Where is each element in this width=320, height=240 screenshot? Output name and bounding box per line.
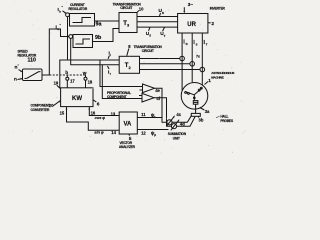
- svg-text:4f: 4f: [156, 96, 160, 101]
- tap wires to T2: [140, 58, 180, 60]
- svg-text:UNIT: UNIT: [173, 136, 180, 140]
- vector analyzer VA box 5: [119, 112, 137, 134]
- switch b circle pin 17: [66, 75, 68, 77]
- svg-text:10: 10: [139, 6, 144, 11]
- stator winding Y: [185, 92, 195, 95]
- wire psi_b: VA pin 12: [137, 129, 168, 131]
- op-amp 4f: [142, 93, 154, 102]
- wire 4c to hall probe 3a: [172, 116, 191, 123]
- inverter label: [210, 7, 226, 11]
- svg-text:6: 6: [97, 102, 100, 108]
- svg-text:R: R: [162, 11, 164, 15]
- current converter 7b: [190, 62, 195, 67]
- svg-text:R: R: [186, 42, 188, 46]
- svg-text:T: T: [206, 42, 208, 46]
- svg-text:S: S: [196, 42, 198, 46]
- wire I_f branch to amplifier 4f: [102, 65, 142, 99]
- transformation circuit label (mid): [134, 45, 163, 53]
- potentiometer 4c: [167, 120, 172, 125]
- label 19: [54, 80, 59, 85]
- input 20 arrow: [53, 101, 60, 106]
- svg-text:b: b: [65, 70, 68, 76]
- phase line R: [181, 33, 183, 90]
- wire 4f output to potentiometer 4d: [154, 98, 171, 127]
- label U_S: [146, 31, 152, 38]
- svg-text:9b: 9b: [95, 35, 102, 41]
- svg-text:MACHINE: MACHINE: [211, 75, 223, 79]
- input I_b* arrow: [63, 11, 67, 14]
- label 6: [93, 100, 96, 102]
- svg-text:17: 17: [70, 79, 75, 84]
- scan noise speckles: [7, 2, 245, 154]
- speed regulator box 110: [23, 69, 43, 81]
- current converter 7a: [180, 56, 185, 61]
- wire: T2 output I_f to node B: [71, 38, 120, 64]
- summation unit label: [168, 132, 187, 140]
- svg-text:3~: 3~: [188, 2, 194, 7]
- 3~ supply arrow: [183, 7, 185, 12]
- svg-text:14: 14: [111, 130, 116, 135]
- svg-text:CONVERTER: CONVERTER: [31, 108, 51, 112]
- wire cos phi: KW pin 16 to VA pin 13: [89, 107, 119, 116]
- svg-text:13: 13: [111, 111, 116, 116]
- op-amp 4e: [143, 84, 155, 93]
- svg-text:9a: 9a: [96, 22, 103, 28]
- svg-text:S: S: [149, 34, 151, 38]
- component converter KW box 6: [61, 88, 93, 107]
- potentiometer 4d: [171, 124, 176, 129]
- label 1: [205, 82, 209, 85]
- label I_f: [108, 70, 111, 77]
- svg-text:cos φ: cos φ: [95, 115, 106, 120]
- input n: [14, 78, 22, 83]
- wire 9b output to T3: [93, 29, 120, 42]
- svg-text:CIRCUIT: CIRCUIT: [120, 6, 132, 10]
- hall probes label: [220, 115, 234, 123]
- svg-text:3b: 3b: [199, 117, 204, 122]
- wire: speed reg output to I_w* summing branch: [42, 29, 69, 75]
- svg-text:7c: 7c: [196, 55, 200, 59]
- svg-text:4e: 4e: [155, 88, 160, 93]
- phase line S: [191, 33, 193, 82]
- inverter UR box 2: [178, 14, 208, 34]
- label 8: [127, 49, 129, 56]
- label I_w*: [56, 23, 62, 31]
- label U_T: [160, 31, 166, 38]
- svg-text:CIRCUIT: CIRCUIT: [142, 49, 154, 53]
- svg-text:f: f: [110, 72, 111, 76]
- current converter 7c: [200, 67, 205, 72]
- current regulator 9b box: [73, 35, 93, 48]
- svg-text:2: 2: [211, 21, 214, 27]
- transformation circuit T2 box: [119, 56, 139, 73]
- junction feedback to node A: [67, 17, 69, 60]
- svg-text:REGULATOR: REGULATOR: [68, 7, 87, 11]
- component converter label: [31, 104, 51, 112]
- current regulator 9a box: [70, 14, 95, 27]
- svg-text:11: 11: [141, 112, 146, 117]
- input n*: [15, 63, 23, 71]
- summing node B: [69, 35, 73, 39]
- svg-text:12: 12: [141, 130, 146, 135]
- labels I_R I_S I_T: [183, 39, 187, 46]
- svg-text:4c: 4c: [176, 112, 181, 117]
- svg-text:KW: KW: [72, 96, 82, 102]
- svg-text:w: w: [82, 71, 87, 76]
- label 5: [128, 134, 131, 135]
- svg-text:18: 18: [88, 80, 93, 85]
- summing node A: [66, 13, 70, 17]
- wires T3 to inverter U_R U_S U_T: [137, 16, 178, 18]
- speed regulator 110 label: [18, 49, 37, 63]
- wire: T2 output I_i to feedback: [60, 60, 119, 88]
- current regulator label: [68, 3, 87, 11]
- svg-text:INVERTER: INVERTER: [210, 7, 226, 11]
- svg-text:ANALYZER: ANALYZER: [119, 145, 136, 149]
- svg-text:3a: 3a: [205, 109, 210, 114]
- speed regulator ramp curve: [25, 72, 41, 79]
- wire I_i branch to amplifier 4e: [100, 60, 142, 87]
- label 10: [137, 11, 139, 13]
- svg-text:110: 110: [28, 58, 36, 64]
- proportional component label: [107, 91, 131, 99]
- wire 4e output to potentiometer 4c: [155, 88, 167, 122]
- label 2: [208, 22, 211, 24]
- asynchronous machine 1: [181, 83, 208, 110]
- hall probe 3b: [191, 113, 200, 116]
- transformation circuit T3 box: [119, 13, 137, 33]
- phase line T: [201, 33, 203, 85]
- svg-text:20: 20: [49, 103, 54, 108]
- svg-text:f: f: [154, 115, 155, 119]
- switch w circle pin 18: [85, 75, 87, 77]
- vector analyzer label: [119, 141, 136, 149]
- wire 4d to hall probe 3b: [177, 116, 196, 126]
- hall probe 3a: [193, 101, 198, 105]
- wire 9a output to T3: [95, 20, 120, 22]
- svg-text:sin φ: sin φ: [94, 129, 104, 134]
- svg-text:19: 19: [54, 80, 59, 85]
- svg-text:UR: UR: [187, 22, 196, 28]
- transformation circuit label (top): [113, 2, 142, 10]
- svg-text:n: n: [14, 78, 17, 83]
- wire sin phi: KW pin 15 to VA pin 14: [67, 107, 120, 131]
- svg-text:15: 15: [60, 111, 65, 116]
- svg-text:VA: VA: [124, 122, 133, 128]
- asynchronous machine label: [211, 71, 234, 79]
- svg-text:PROBES: PROBES: [220, 119, 234, 123]
- label U_R: [159, 8, 165, 15]
- wire psi_f: VA pin 11: [137, 117, 162, 119]
- wire: dashed line from speed reg output to switches b,w: [49, 74, 86, 76]
- label I_i: [109, 51, 112, 58]
